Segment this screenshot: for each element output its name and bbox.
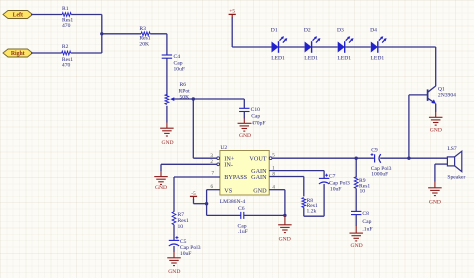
svg-text:Cap: Cap	[251, 114, 260, 120]
svg-text:LS7: LS7	[447, 146, 457, 152]
svg-text:GND: GND	[351, 243, 363, 249]
svg-text:.1uF: .1uF	[238, 229, 248, 235]
svg-text:+5: +5	[229, 8, 235, 14]
svg-text:C9: C9	[371, 148, 378, 154]
svg-text:20K: 20K	[139, 41, 149, 47]
svg-text:D4: D4	[370, 28, 377, 34]
svg-text:C4: C4	[174, 54, 181, 60]
svg-text:LED1: LED1	[337, 56, 351, 62]
svg-text:470pF: 470pF	[251, 120, 265, 126]
svg-text:GND: GND	[161, 140, 173, 146]
svg-text:D1: D1	[271, 28, 278, 34]
svg-text:R3: R3	[139, 26, 146, 32]
svg-text:.1uF: .1uF	[362, 226, 372, 232]
svg-text:C10: C10	[251, 107, 261, 113]
svg-text:C7: C7	[329, 174, 336, 180]
svg-text:1000uF: 1000uF	[371, 172, 388, 178]
svg-text:GND: GND	[155, 185, 167, 191]
svg-text:GND: GND	[253, 188, 267, 195]
svg-text:Res1: Res1	[139, 35, 150, 41]
svg-text:Left: Left	[13, 13, 23, 19]
svg-text:C8: C8	[362, 211, 369, 217]
svg-text:GAIN: GAIN	[251, 174, 267, 181]
svg-text:470: 470	[62, 23, 71, 29]
svg-text:1.2k: 1.2k	[307, 208, 317, 214]
svg-text:LED1: LED1	[304, 56, 318, 62]
svg-text:10uF: 10uF	[330, 187, 342, 193]
svg-text:GND: GND	[430, 128, 442, 134]
svg-text:7: 7	[212, 171, 215, 176]
svg-text:10uF: 10uF	[180, 251, 192, 257]
svg-text:10: 10	[178, 224, 184, 230]
svg-text:GND: GND	[279, 237, 291, 243]
svg-text:VS: VS	[224, 188, 232, 195]
svg-text:D3: D3	[337, 28, 344, 34]
svg-text:470: 470	[62, 63, 71, 69]
svg-text:10: 10	[360, 189, 366, 195]
svg-text:GND: GND	[429, 200, 441, 206]
svg-text:Right: Right	[11, 51, 25, 57]
svg-text:GND: GND	[168, 269, 180, 275]
svg-text:R1: R1	[62, 6, 69, 12]
svg-text:50K: 50K	[180, 95, 190, 101]
svg-text:VOUT: VOUT	[249, 156, 266, 163]
svg-text:LED1: LED1	[271, 56, 285, 62]
svg-text:Cap: Cap	[174, 60, 183, 66]
svg-text:U2: U2	[220, 145, 227, 151]
svg-text:LM386N-4: LM386N-4	[220, 199, 246, 205]
svg-text:R2: R2	[62, 44, 69, 50]
svg-text:BYPASS: BYPASS	[224, 174, 247, 181]
svg-text:R6: R6	[180, 82, 187, 88]
svg-text:LED1: LED1	[371, 56, 385, 62]
svg-text:2N3904: 2N3904	[438, 93, 456, 99]
svg-text:Speaker: Speaker	[447, 175, 465, 181]
svg-text:IN-: IN-	[224, 162, 233, 169]
svg-text:RPot: RPot	[179, 89, 191, 95]
svg-text:Cap: Cap	[362, 219, 371, 225]
svg-text:10uF: 10uF	[174, 67, 186, 73]
svg-text:-5: -5	[191, 191, 196, 197]
svg-text:GND: GND	[239, 133, 251, 139]
svg-text:C6: C6	[238, 206, 245, 212]
svg-text:D2: D2	[304, 28, 311, 34]
